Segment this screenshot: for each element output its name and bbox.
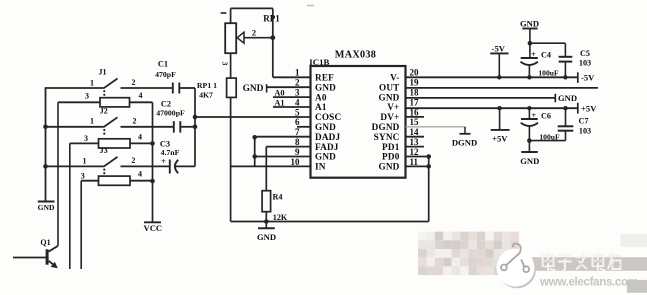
svg-text:1: 1 <box>83 157 87 166</box>
svg-text:DV+: DV+ <box>380 112 399 122</box>
svg-text:+5V: +5V <box>581 104 597 114</box>
svg-text:OUT: OUT <box>379 82 400 92</box>
svg-text:RP1 1: RP1 1 <box>197 81 217 90</box>
svg-text:10: 10 <box>291 157 301 167</box>
svg-text:2: 2 <box>252 29 256 38</box>
svg-text:2: 2 <box>131 156 135 165</box>
svg-text:Q1: Q1 <box>40 238 50 247</box>
svg-text:19: 19 <box>410 78 420 88</box>
svg-text:C4: C4 <box>541 51 551 60</box>
svg-text:DGND: DGND <box>372 122 400 132</box>
svg-text:GND: GND <box>520 19 539 29</box>
svg-text:+: + <box>531 50 536 59</box>
svg-text:100uF: 100uF <box>538 69 559 78</box>
svg-text:4: 4 <box>295 97 300 107</box>
svg-text:1: 1 <box>90 117 94 126</box>
svg-text:A0: A0 <box>274 88 284 97</box>
svg-text:R4: R4 <box>272 193 282 202</box>
svg-text:+5V: +5V <box>492 134 508 144</box>
svg-text:3: 3 <box>85 92 89 101</box>
svg-text:15: 15 <box>410 117 420 127</box>
svg-text:4: 4 <box>138 170 142 179</box>
svg-text:V+: V+ <box>387 102 399 112</box>
svg-text:GND: GND <box>38 203 55 212</box>
svg-text:GND: GND <box>378 162 399 172</box>
svg-text:GND: GND <box>315 122 336 132</box>
svg-text:+: + <box>531 111 536 120</box>
svg-text:13: 13 <box>410 137 420 147</box>
svg-text:MAX038: MAX038 <box>335 50 376 61</box>
svg-text:GND: GND <box>243 84 264 94</box>
svg-text:www.elecfans.com: www.elecfans.com <box>539 276 638 289</box>
svg-text:7: 7 <box>295 127 300 137</box>
svg-text:J2: J2 <box>100 107 108 116</box>
svg-text:2: 2 <box>132 78 136 87</box>
svg-text:C7: C7 <box>578 117 588 126</box>
svg-text:4: 4 <box>138 133 142 142</box>
svg-text:+: + <box>161 156 166 166</box>
svg-text:GND: GND <box>315 152 336 162</box>
svg-text:C1: C1 <box>158 60 168 69</box>
svg-text:2: 2 <box>133 117 137 126</box>
svg-text:C2: C2 <box>161 100 171 109</box>
svg-text:J1: J1 <box>99 68 107 77</box>
svg-text:RP1: RP1 <box>263 14 280 24</box>
svg-text:SYNC: SYNC <box>374 132 400 142</box>
svg-text:REF: REF <box>315 73 334 83</box>
svg-text:A0: A0 <box>315 92 327 102</box>
svg-text:11: 11 <box>410 157 419 167</box>
svg-text:-5V: -5V <box>492 44 506 54</box>
svg-text:1: 1 <box>90 79 94 88</box>
svg-text:4: 4 <box>139 91 143 100</box>
svg-text:PD1: PD1 <box>382 142 400 152</box>
svg-text:A1: A1 <box>315 102 327 112</box>
svg-text:GND: GND <box>315 82 336 92</box>
svg-text:C6: C6 <box>541 112 551 121</box>
svg-text:4K7: 4K7 <box>199 91 213 100</box>
svg-text:DADJ: DADJ <box>315 132 341 142</box>
svg-text:IN: IN <box>315 162 326 172</box>
svg-text:6: 6 <box>295 117 300 127</box>
svg-text:A1: A1 <box>274 98 284 107</box>
svg-text:470pF: 470pF <box>155 70 176 79</box>
svg-text:IC1B: IC1B <box>309 57 329 67</box>
svg-text:GND: GND <box>558 93 577 103</box>
svg-text:4.7nF: 4.7nF <box>161 148 180 157</box>
svg-text:47000pF: 47000pF <box>156 109 185 118</box>
svg-text:14: 14 <box>410 127 420 137</box>
svg-text:V-: V- <box>390 73 399 83</box>
svg-text:2: 2 <box>295 78 300 88</box>
svg-text:3: 3 <box>84 134 88 143</box>
svg-text:3: 3 <box>81 172 85 181</box>
svg-text:PD0: PD0 <box>382 152 400 162</box>
svg-text:103: 103 <box>579 58 591 67</box>
svg-text:9: 9 <box>295 147 300 157</box>
svg-text:GND: GND <box>257 232 276 242</box>
svg-text:103: 103 <box>579 127 591 136</box>
svg-text:20: 20 <box>410 68 420 78</box>
svg-text:8: 8 <box>295 137 300 147</box>
svg-text:1: 1 <box>295 68 300 78</box>
svg-text:12: 12 <box>410 147 420 157</box>
svg-text:17: 17 <box>410 97 420 107</box>
svg-text:COSC: COSC <box>315 112 341 122</box>
svg-text:3: 3 <box>295 88 300 98</box>
svg-text:GND: GND <box>378 92 399 102</box>
svg-text:3: 3 <box>220 62 229 66</box>
svg-text:C5: C5 <box>580 49 590 58</box>
svg-text:FADJ: FADJ <box>315 142 339 152</box>
svg-text:GND: GND <box>520 156 539 166</box>
svg-text:J3: J3 <box>100 146 108 155</box>
svg-text:VCC: VCC <box>143 223 162 233</box>
svg-text:5: 5 <box>295 107 300 117</box>
svg-text:18: 18 <box>410 88 420 98</box>
svg-text:DGND: DGND <box>452 138 477 148</box>
svg-text:-5V: -5V <box>581 72 595 82</box>
